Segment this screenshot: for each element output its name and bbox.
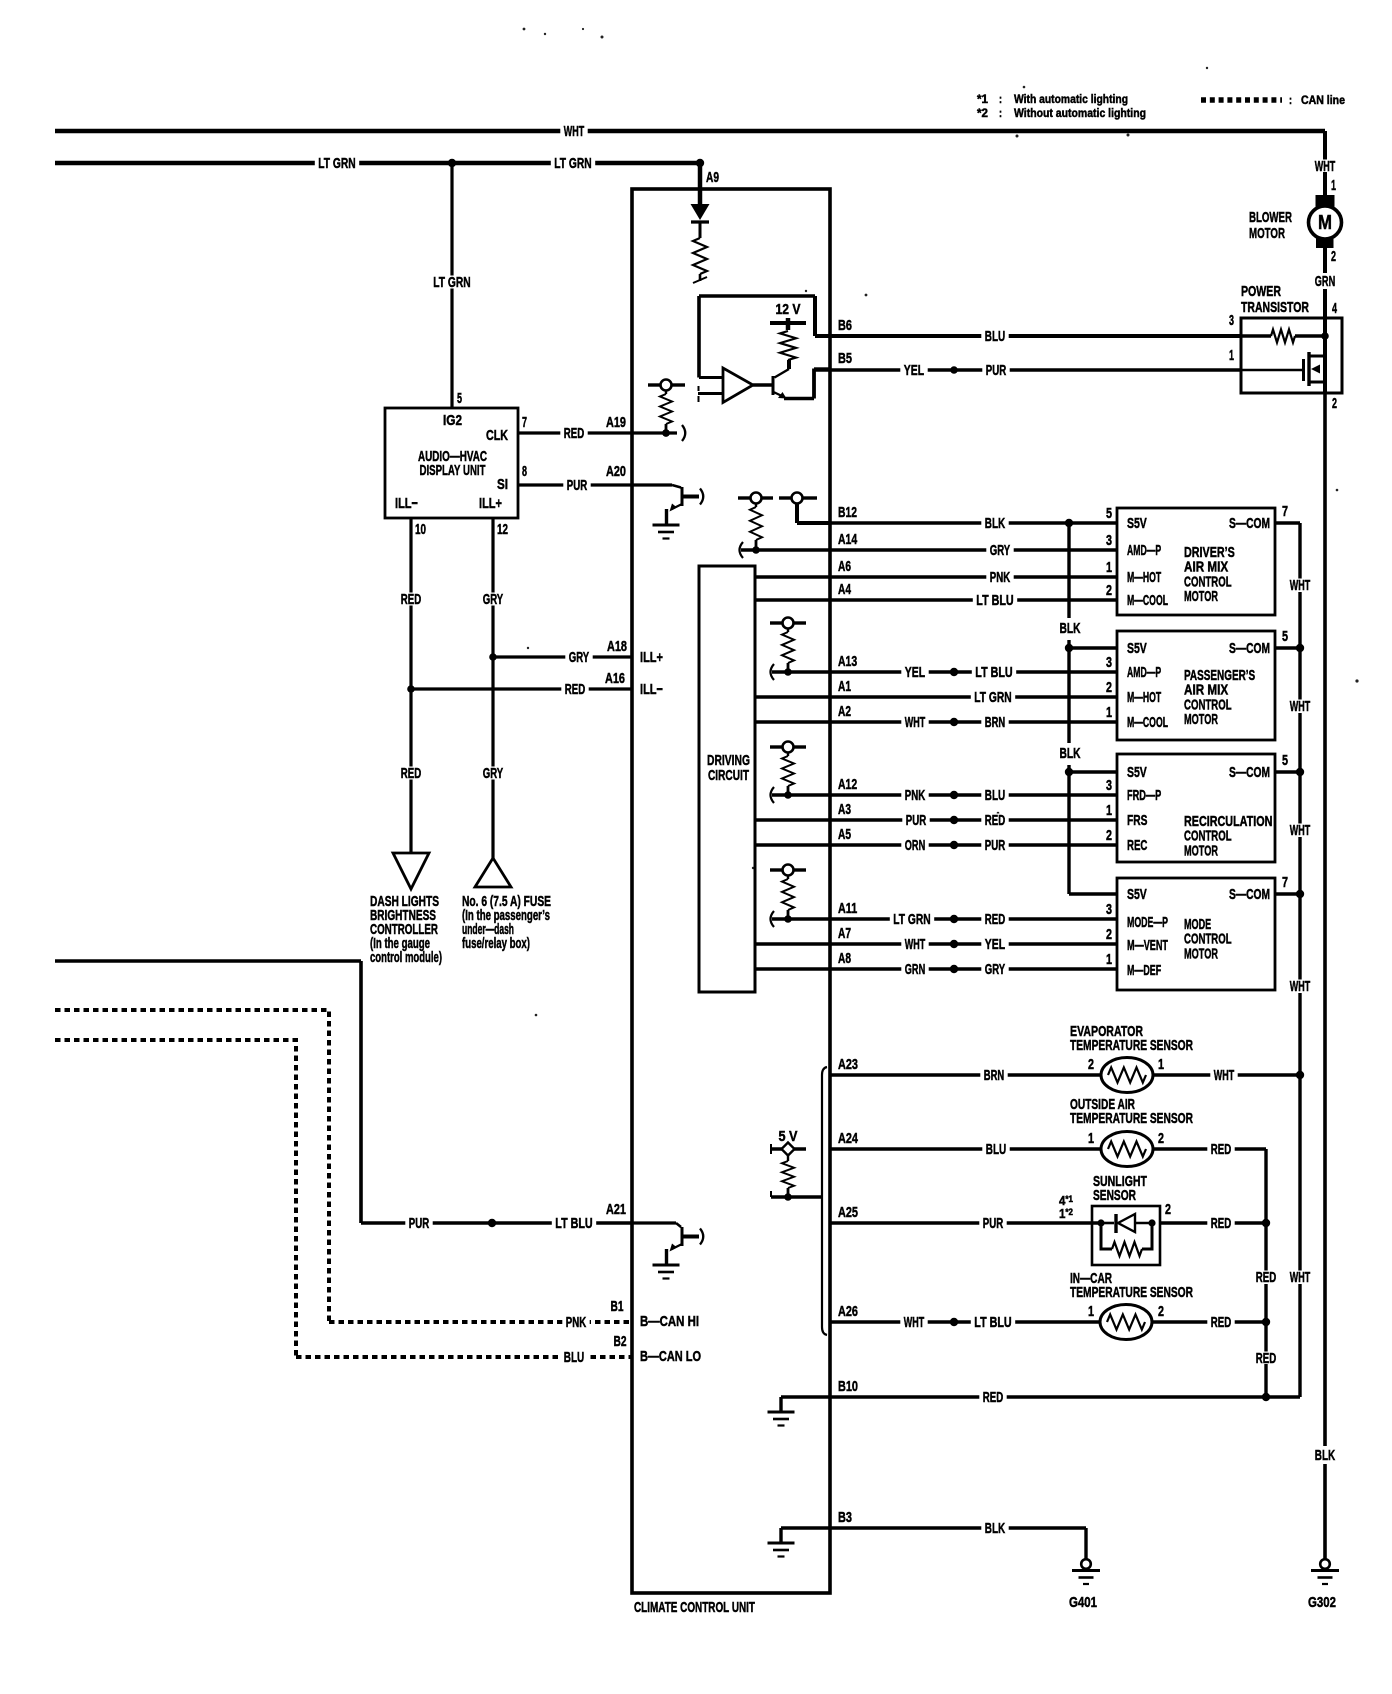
svg-text:S—COM: S—COM — [1229, 886, 1270, 903]
svg-text:A20: A20 — [606, 463, 626, 480]
svg-text:Without automatic lighting: Without automatic lighting — [1014, 106, 1146, 120]
svg-text:S5V: S5V — [1127, 764, 1147, 781]
svg-text:A16: A16 — [605, 670, 625, 687]
svg-text:1: 1 — [1331, 177, 1336, 194]
svg-text:A7: A7 — [838, 925, 851, 942]
svg-text:A4: A4 — [838, 581, 851, 598]
svg-text:5: 5 — [1106, 505, 1112, 522]
svg-text:LT GRN: LT GRN — [893, 911, 930, 928]
svg-text:ILL−: ILL− — [640, 681, 663, 698]
svg-text:YEL: YEL — [904, 362, 924, 379]
svg-text:B—CAN HI: B—CAN HI — [640, 1313, 699, 1330]
svg-text:A1: A1 — [838, 678, 851, 695]
svg-text:2: 2 — [1106, 679, 1112, 696]
svg-text:A23: A23 — [838, 1056, 858, 1073]
svg-text:M—HOT: M—HOT — [1127, 569, 1161, 586]
svg-text:M—COOL: M—COOL — [1127, 592, 1168, 609]
svg-text:CLK: CLK — [486, 427, 508, 444]
svg-text:MODE—P: MODE—P — [1127, 914, 1168, 931]
svg-text:BLOWER: BLOWER — [1249, 209, 1292, 226]
svg-text:S5V: S5V — [1127, 886, 1147, 903]
svg-text:MOTOR: MOTOR — [1184, 588, 1218, 605]
svg-text:YEL: YEL — [905, 664, 925, 681]
svg-text:BLU: BLU — [985, 328, 1005, 345]
svg-text:ORN: ORN — [905, 837, 925, 854]
svg-text:LT GRN: LT GRN — [974, 689, 1011, 706]
svg-text:2: 2 — [1106, 827, 1112, 844]
svg-text:G401: G401 — [1069, 1594, 1097, 1611]
svg-text:B5: B5 — [838, 350, 852, 367]
svg-text:S5V: S5V — [1127, 640, 1147, 657]
svg-text:A18: A18 — [607, 638, 627, 655]
svg-text:PNK: PNK — [990, 569, 1011, 586]
svg-text:LT GRN: LT GRN — [318, 155, 355, 172]
svg-text:A12: A12 — [838, 776, 857, 793]
svg-text:RED: RED — [401, 765, 422, 782]
svg-text:GRY: GRY — [483, 765, 503, 782]
svg-text:fuse/relay box): fuse/relay box) — [462, 935, 530, 952]
svg-text:WHT: WHT — [904, 1314, 924, 1331]
svg-text:DISPLAY UNIT: DISPLAY UNIT — [420, 462, 486, 479]
svg-text:2: 2 — [1165, 1201, 1171, 1218]
svg-text:A25: A25 — [838, 1204, 858, 1221]
svg-text:PUR: PUR — [986, 362, 1007, 379]
svg-text:12 V: 12 V — [776, 301, 801, 318]
svg-text:B—CAN LO: B—CAN LO — [640, 1348, 701, 1365]
svg-text:MOTOR: MOTOR — [1184, 842, 1218, 859]
svg-text:PUR: PUR — [567, 477, 588, 494]
svg-text:*2: *2 — [977, 106, 988, 120]
svg-text:GRY: GRY — [990, 542, 1010, 559]
svg-text:5: 5 — [1282, 628, 1288, 645]
svg-text:A24: A24 — [838, 1130, 858, 1147]
svg-text:A14: A14 — [838, 531, 858, 548]
svg-text:LT BLU: LT BLU — [974, 1314, 1011, 1331]
svg-text:RED: RED — [985, 911, 1006, 928]
svg-text:GRY: GRY — [483, 591, 503, 608]
svg-text:ILL−: ILL− — [395, 495, 418, 512]
svg-text:RED: RED — [983, 1389, 1004, 1406]
svg-text:S—COM: S—COM — [1229, 640, 1270, 657]
svg-text:1: 1 — [1106, 559, 1112, 576]
svg-text:S—COM: S—COM — [1229, 515, 1270, 532]
svg-text:IG2: IG2 — [443, 412, 462, 429]
svg-text:ILL+: ILL+ — [479, 495, 502, 512]
svg-text:RED: RED — [1211, 1141, 1232, 1158]
svg-text:S5V: S5V — [1127, 515, 1147, 532]
svg-text:WHT: WHT — [1290, 577, 1310, 594]
svg-text:YEL: YEL — [985, 936, 1005, 953]
svg-text:M: M — [1318, 212, 1332, 234]
svg-text:WHT: WHT — [905, 936, 925, 953]
svg-text:M—HOT: M—HOT — [1127, 689, 1161, 706]
svg-text:MOTOR: MOTOR — [1249, 225, 1285, 242]
svg-text:WHT: WHT — [905, 714, 925, 731]
svg-text:WHT: WHT — [1290, 978, 1310, 995]
svg-text:3: 3 — [1106, 901, 1112, 918]
svg-text:5: 5 — [457, 390, 462, 407]
svg-text:BLU: BLU — [564, 1349, 584, 1366]
svg-text:BLK: BLK — [985, 515, 1006, 532]
svg-text:RED: RED — [564, 425, 585, 442]
svg-text:M—COOL: M—COOL — [1127, 714, 1168, 731]
svg-text:4: 4 — [1332, 300, 1337, 317]
svg-text:B6: B6 — [838, 317, 852, 334]
svg-text:TEMPERATURE SENSOR: TEMPERATURE SENSOR — [1070, 1284, 1193, 1301]
svg-text:REC: REC — [1127, 837, 1148, 854]
svg-text:A26: A26 — [838, 1303, 858, 1320]
svg-text:2: 2 — [1331, 248, 1336, 265]
svg-text:2: 2 — [1106, 582, 1112, 599]
svg-text:12: 12 — [497, 521, 508, 538]
svg-text:SI: SI — [497, 476, 508, 493]
svg-text:GRN: GRN — [1315, 273, 1335, 290]
svg-text:2: 2 — [1158, 1303, 1164, 1320]
svg-text:TEMPERATURE SENSOR: TEMPERATURE SENSOR — [1070, 1037, 1193, 1054]
svg-text:RED: RED — [1256, 1269, 1277, 1286]
svg-text:RED: RED — [565, 681, 586, 698]
svg-text:3: 3 — [1106, 654, 1112, 671]
svg-text:1: 1 — [1106, 802, 1112, 819]
svg-text:GRY: GRY — [985, 961, 1005, 978]
svg-text:LT BLU: LT BLU — [555, 1215, 592, 1232]
svg-text:BLU: BLU — [986, 1141, 1006, 1158]
svg-text:B12: B12 — [838, 504, 857, 521]
svg-text:B1: B1 — [611, 1298, 624, 1315]
svg-text:7: 7 — [522, 414, 527, 431]
svg-text:FRS: FRS — [1127, 812, 1147, 829]
svg-text:3: 3 — [1106, 777, 1112, 794]
svg-text:AMD—P: AMD—P — [1127, 664, 1161, 681]
svg-text:A8: A8 — [838, 950, 851, 967]
svg-text:WHT: WHT — [564, 123, 584, 140]
svg-text:1: 1 — [1229, 347, 1234, 364]
svg-text:BLK: BLK — [1060, 620, 1081, 637]
svg-text:SENSOR: SENSOR — [1093, 1187, 1136, 1204]
svg-text:7: 7 — [1282, 874, 1288, 891]
svg-text:A2: A2 — [838, 703, 851, 720]
svg-text:CAN line: CAN line — [1301, 93, 1345, 107]
svg-text:LT BLU: LT BLU — [975, 664, 1012, 681]
svg-text::: : — [1289, 93, 1292, 107]
svg-text:2: 2 — [1106, 926, 1112, 943]
svg-text:B3: B3 — [838, 1509, 852, 1526]
svg-text:MOTOR: MOTOR — [1184, 711, 1218, 728]
svg-text:PNK: PNK — [566, 1314, 587, 1331]
svg-text:G302: G302 — [1308, 1594, 1336, 1611]
svg-text:POWER: POWER — [1241, 283, 1281, 300]
svg-text:CLIMATE CONTROL UNIT: CLIMATE CONTROL UNIT — [634, 1599, 755, 1616]
svg-text:PNK: PNK — [905, 787, 926, 804]
svg-text:BLU: BLU — [985, 787, 1005, 804]
svg-text:B10: B10 — [838, 1378, 858, 1395]
svg-text::: : — [999, 92, 1002, 106]
svg-text:*1: *1 — [977, 92, 988, 106]
svg-text:A21: A21 — [606, 1201, 626, 1218]
svg-text:BRN: BRN — [984, 1067, 1004, 1084]
svg-text:WHT: WHT — [1214, 1067, 1234, 1084]
svg-text:1: 1 — [1088, 1303, 1094, 1320]
svg-text:RED: RED — [401, 591, 422, 608]
svg-text:WHT: WHT — [1290, 822, 1310, 839]
svg-text:2: 2 — [1332, 395, 1337, 412]
svg-text:8: 8 — [522, 463, 527, 480]
svg-text:A11: A11 — [838, 900, 857, 917]
svg-text:A6: A6 — [838, 558, 851, 575]
svg-text:GRN: GRN — [905, 961, 925, 978]
svg-text:7: 7 — [1282, 503, 1288, 520]
svg-text:M—VENT: M—VENT — [1127, 937, 1168, 954]
svg-text:BLK: BLK — [985, 1520, 1006, 1537]
svg-text:CIRCUIT: CIRCUIT — [708, 767, 749, 784]
svg-text::: : — [999, 106, 1002, 120]
svg-text:A5: A5 — [838, 826, 851, 843]
svg-text:10: 10 — [415, 521, 426, 538]
svg-text:S—COM: S—COM — [1229, 764, 1270, 781]
svg-text:2: 2 — [1158, 1130, 1164, 1147]
svg-text:WHT: WHT — [1290, 698, 1310, 715]
svg-text:AMD—P: AMD—P — [1127, 542, 1161, 559]
svg-text:RED: RED — [985, 812, 1006, 829]
svg-text:WHT: WHT — [1290, 1269, 1310, 1286]
svg-text:B2: B2 — [614, 1333, 627, 1350]
svg-text:1: 1 — [1088, 1130, 1094, 1147]
svg-text:MOTOR: MOTOR — [1184, 945, 1218, 962]
svg-text:LT BLU: LT BLU — [976, 592, 1013, 609]
svg-text:5: 5 — [1282, 752, 1288, 769]
svg-text:RED: RED — [1211, 1314, 1232, 1331]
svg-text:1: 1 — [1106, 704, 1112, 721]
svg-text:PUR: PUR — [985, 837, 1006, 854]
svg-text:LT GRN: LT GRN — [554, 155, 591, 172]
svg-text:TEMPERATURE SENSOR: TEMPERATURE SENSOR — [1070, 1110, 1193, 1127]
svg-text:BRN: BRN — [985, 714, 1005, 731]
svg-text:control module): control module) — [370, 949, 442, 966]
svg-text:FRD—P: FRD—P — [1127, 787, 1161, 804]
svg-text:BLK: BLK — [1060, 745, 1081, 762]
svg-text:3: 3 — [1229, 312, 1234, 329]
svg-text:1: 1 — [1106, 951, 1112, 968]
svg-text:RED: RED — [1211, 1215, 1232, 1232]
svg-text:GRY: GRY — [569, 649, 589, 666]
svg-text:BLK: BLK — [1315, 1447, 1336, 1464]
svg-text:1: 1 — [1158, 1056, 1164, 1073]
svg-text:PUR: PUR — [983, 1215, 1004, 1232]
svg-text:M—DEF: M—DEF — [1127, 962, 1161, 979]
svg-text:PUR: PUR — [409, 1215, 430, 1232]
svg-text:With automatic lighting: With automatic lighting — [1014, 92, 1128, 106]
svg-text:LT GRN: LT GRN — [433, 274, 470, 291]
svg-text:A3: A3 — [838, 801, 851, 818]
svg-text:A19: A19 — [606, 414, 626, 431]
svg-text:ILL+: ILL+ — [640, 649, 663, 666]
svg-text:PUR: PUR — [906, 812, 927, 829]
svg-text:A9: A9 — [706, 169, 719, 186]
svg-text:TRANSISTOR: TRANSISTOR — [1241, 299, 1309, 316]
svg-text:A13: A13 — [838, 653, 857, 670]
svg-text:2: 2 — [1088, 1056, 1094, 1073]
svg-text:3: 3 — [1106, 532, 1112, 549]
